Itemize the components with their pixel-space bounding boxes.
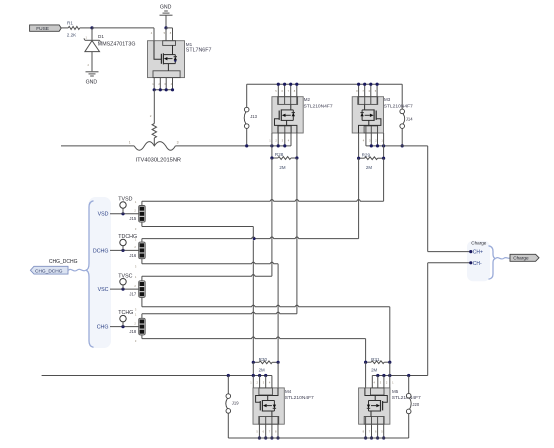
wire bottom drain rail — [228, 437, 408, 439]
svg-text:M1: M1 — [186, 42, 193, 47]
node DCHG top/VSD link junction — [253, 237, 256, 240]
wire right rail bottom (CH- down) — [427, 263, 429, 376]
svg-text:2: 2 — [257, 380, 259, 384]
svg-text:3: 3 — [282, 138, 284, 142]
wire VSC top run — [142, 275, 272, 277]
node M1 pin4 — [171, 88, 174, 91]
svg-text:2: 2 — [134, 321, 136, 325]
node CH+ — [469, 250, 472, 253]
wire DCHG top run — [142, 237, 359, 239]
svg-text:5: 5 — [275, 89, 277, 93]
svg-text:2: 2 — [134, 209, 136, 213]
node M2 pin8 — [295, 83, 298, 86]
node CH- — [469, 261, 472, 264]
node R30 left — [252, 361, 255, 364]
wire J20 to bottom rail — [408, 414, 410, 438]
svg-text:GND: GND — [86, 79, 98, 85]
svg-text:2: 2 — [88, 63, 90, 67]
wire FUSE to R1 — [61, 27, 68, 29]
svg-text:3: 3 — [380, 380, 382, 384]
bus wire squiggle right — [496, 258, 510, 260]
svg-text:CH+: CH+ — [473, 250, 483, 256]
wire J18 pin1 to top run — [141, 314, 143, 319]
wire VSD bottom run — [142, 226, 253, 228]
svg-text:2: 2 — [134, 245, 136, 249]
wire rail A: M2 sense to VSC top — [271, 158, 273, 276]
svg-text:1: 1 — [129, 140, 131, 144]
svg-text:2M: 2M — [366, 165, 372, 170]
svg-text:R31: R31 — [371, 357, 380, 362]
svg-text:5: 5 — [375, 89, 377, 93]
wire J14 to CH+ source rail — [401, 128, 403, 146]
wire rail B: M2 gate to CHG top — [296, 158, 298, 314]
wire drain rail (M2/M3 common) — [247, 83, 403, 85]
svg-text:CHG_DCHG: CHG_DCHG — [49, 259, 78, 265]
svg-text:6: 6 — [263, 430, 265, 434]
node R1/D1 junction — [90, 26, 93, 29]
svg-text:1: 1 — [135, 313, 137, 317]
svg-text:5: 5 — [164, 31, 166, 35]
wire source segment right (M5 to CH-) — [372, 375, 427, 377]
svg-text:2: 2 — [275, 138, 277, 142]
svg-text:2: 2 — [150, 114, 152, 118]
wire rail D: M3 sense to VSD top — [383, 158, 385, 201]
connector J17 3-pin header — [139, 281, 146, 298]
transistor M1 STL7N6F7 — [148, 41, 185, 78]
node M2 pin7 — [289, 83, 292, 86]
wire inductor to M2 section — [175, 145, 291, 147]
wire VSC bottom drop (v3) — [389, 307, 391, 362]
svg-text:4: 4 — [288, 138, 290, 142]
port FUSE — [30, 25, 62, 31]
svg-text:VSC: VSC — [98, 287, 109, 293]
inductor ITV4030L2015NR (tap winding) — [152, 124, 156, 138]
node M2 source pins — [270, 144, 273, 147]
svg-text:3: 3 — [177, 140, 179, 144]
node M3 pin7 — [363, 83, 366, 86]
svg-text:1: 1 — [250, 380, 252, 384]
node J14 bottom — [401, 144, 404, 147]
M4 top pins (source) — [252, 376, 254, 396]
svg-text:1: 1 — [392, 380, 394, 384]
wire J15 pin3 to bottom run — [141, 222, 143, 226]
svg-text:3: 3 — [135, 339, 137, 343]
svg-text:2M: 2M — [371, 367, 377, 372]
wire M1 source bus — [154, 89, 172, 91]
svg-text:ITV4030L2015NR: ITV4030L2015NR — [136, 158, 182, 164]
wire R1 node down into M1 (gate lead) — [153, 28, 155, 41]
bus brace right — [489, 246, 496, 279]
svg-text:1: 1 — [135, 200, 137, 204]
wire CHG signal — [110, 326, 139, 328]
svg-text:1: 1 — [269, 138, 271, 142]
wire J13 stub from rail — [246, 84, 248, 107]
M5 bottom pins (drain) — [365, 417, 367, 439]
connector J15 3-pin header — [139, 206, 146, 223]
node M3 source pins — [370, 144, 373, 147]
jumper J14 — [400, 109, 405, 114]
svg-text:R29: R29 — [362, 152, 371, 157]
node M1 pin3 — [165, 88, 168, 91]
wire CH- — [428, 262, 471, 264]
node R31 right — [388, 361, 391, 364]
svg-text:M3: M3 — [384, 97, 391, 102]
wire J17 pin1 to top run — [141, 276, 143, 281]
svg-text:8: 8 — [356, 89, 358, 93]
wire CHG bottom run — [142, 337, 366, 339]
wire DCHG signal — [110, 249, 139, 251]
svg-text:8: 8 — [170, 31, 172, 35]
svg-text:TVSC: TVSC — [118, 273, 132, 279]
svg-text:TVSD: TVSD — [118, 197, 132, 203]
node J20 top — [407, 374, 410, 377]
wire CHG bottom drop (v4) — [365, 339, 367, 363]
svg-text:7: 7 — [362, 89, 364, 93]
svg-text:Charge: Charge — [513, 256, 529, 261]
svg-text:STL210N4F7: STL210N4F7 — [304, 104, 333, 110]
svg-text:2: 2 — [386, 380, 388, 384]
transistor M2 STL210N4F7 — [272, 97, 303, 133]
transistor M5 STL210N4F7 — [359, 388, 390, 424]
svg-text:2: 2 — [375, 138, 377, 142]
svg-text:7: 7 — [269, 430, 271, 434]
svg-text:8: 8 — [294, 89, 296, 93]
jumper J13 — [244, 107, 249, 112]
resistor R30 — [259, 361, 272, 364]
wire rail C: M3 gate to DCHG top — [358, 158, 360, 238]
testpoint TVSD — [122, 208, 124, 214]
svg-text:J13: J13 — [250, 114, 257, 119]
svg-text:VSD: VSD — [98, 212, 109, 218]
node M4 drain pins — [258, 436, 261, 439]
testpoint TVSC — [122, 285, 124, 289]
M2 top pins (drain) — [277, 84, 279, 104]
bus brace left — [86, 201, 94, 347]
M1 bottom pins — [153, 78, 155, 90]
resistor R31 — [371, 361, 384, 364]
svg-text:4: 4 — [151, 31, 153, 35]
wire M2 gate exit down to R28 — [296, 133, 298, 158]
wire M3 gate exit down to R29 — [358, 133, 360, 158]
port Charge — [510, 254, 539, 261]
wire R31 right to source wire — [389, 362, 391, 375]
jumper J19 — [227, 376, 229, 394]
svg-text:M4: M4 — [285, 389, 292, 394]
svg-text:J16: J16 — [129, 253, 136, 258]
node M1 drain junction — [164, 26, 167, 29]
svg-text:MMSZ4701T3G: MMSZ4701T3G — [98, 41, 136, 47]
svg-text:4: 4 — [269, 380, 271, 384]
wire CH+ — [428, 251, 471, 253]
node R29 left — [357, 157, 360, 160]
connector J18 3-pin header — [139, 318, 146, 335]
node R30 right — [277, 361, 280, 364]
wire GND node to M1 drain pins — [166, 27, 173, 29]
testpoint TCHG — [122, 322, 124, 327]
node M3 pin6 — [369, 83, 372, 86]
node M4 source pins — [252, 374, 255, 377]
svg-text:DCHG: DCHG — [93, 248, 109, 254]
transistor M3 STL210N4F7 — [352, 97, 383, 133]
wire R1 to node — [80, 27, 92, 29]
wire VSD bottom drop (v1) — [252, 227, 254, 239]
node M2 pin5 — [277, 83, 280, 86]
wire VSC signal — [110, 288, 139, 290]
wire VSC bottom run — [142, 305, 390, 307]
svg-text:J20: J20 — [412, 402, 419, 407]
svg-text:TCHG: TCHG — [118, 310, 133, 316]
wire VSD top run — [142, 200, 384, 202]
node M2 pin6 — [283, 83, 286, 86]
M4 bottom pins (drain) — [258, 417, 260, 439]
wire M4 gate feed through — [277, 362, 279, 388]
svg-text:J17: J17 — [129, 292, 136, 297]
svg-text:6: 6 — [375, 430, 377, 434]
wire M2 sense pin1 down — [271, 133, 273, 158]
svg-text:2M: 2M — [259, 367, 265, 372]
resistor R1 — [68, 26, 80, 29]
M3 bottom pins (source) — [370, 126, 372, 146]
svg-text:R1: R1 — [67, 20, 73, 25]
node J19 top — [227, 374, 230, 377]
wire J13 to source rail — [246, 128, 248, 146]
wire J15 pin1 to top run — [141, 201, 143, 205]
node J13 bottom — [245, 144, 248, 147]
M5 top pins (source) — [377, 376, 379, 396]
svg-text:FUSE: FUSE — [36, 26, 49, 32]
resistor R28 — [278, 157, 291, 160]
svg-text:CH-: CH- — [473, 261, 482, 267]
wire M5 gate feed through — [365, 362, 367, 388]
bus region right — [467, 241, 490, 281]
svg-text:3: 3 — [369, 138, 371, 142]
svg-text:7: 7 — [369, 430, 371, 434]
svg-text:J15: J15 — [129, 216, 136, 221]
wire CHG top run — [142, 312, 297, 314]
svg-text:1: 1 — [86, 36, 88, 40]
svg-text:Charge: Charge — [471, 241, 487, 246]
wire DCHG bottom drop (v2) — [277, 264, 279, 363]
svg-text:4: 4 — [363, 138, 365, 142]
wire source feed left (to M4) — [42, 375, 272, 377]
bus region left — [89, 197, 112, 348]
svg-text:D1: D1 — [98, 34, 104, 39]
svg-text:R30: R30 — [259, 357, 268, 362]
M3 top pins (drain) — [364, 84, 366, 104]
node M3 pin8 — [357, 83, 360, 86]
inductor body arcs — [134, 142, 175, 151]
wire J19 to bottom rail — [227, 413, 229, 438]
svg-text:2: 2 — [134, 284, 136, 288]
svg-text:5: 5 — [381, 430, 383, 434]
node M5 drain pins — [364, 436, 367, 439]
M2 bottom pins (source) — [277, 126, 279, 146]
bus wire squiggle left — [68, 269, 85, 271]
svg-text:CHG_DCHG: CHG_DCHG — [35, 268, 63, 274]
svg-text:6: 6 — [282, 89, 284, 93]
connector J16 3-pin header — [139, 242, 146, 259]
svg-text:8: 8 — [363, 430, 365, 434]
svg-text:3: 3 — [135, 264, 137, 268]
wire J18 pin3 to bottom run — [141, 335, 143, 339]
wire J16 pin1 to top run — [141, 239, 143, 243]
svg-text:J19: J19 — [232, 400, 239, 405]
node M1 pin1 — [153, 88, 156, 91]
svg-text:R28: R28 — [275, 152, 284, 157]
svg-text:J14: J14 — [406, 116, 413, 121]
testpoint TDCHG — [122, 246, 124, 251]
node R31 left — [364, 361, 367, 364]
jumper J20 — [408, 376, 410, 394]
svg-text:CHG: CHG — [97, 325, 109, 331]
wire M1 source down to inductor tap — [153, 90, 155, 124]
diode D1 MMSZ4701T3G (zener) — [91, 28, 93, 40]
svg-text:1: 1 — [135, 275, 137, 279]
svg-text:8: 8 — [275, 430, 277, 434]
wire M3 sense pin down — [383, 133, 385, 158]
svg-text:4: 4 — [374, 380, 376, 384]
svg-text:3: 3 — [135, 307, 137, 311]
svg-text:2M: 2M — [279, 165, 285, 170]
wire left feed — [61, 145, 134, 147]
svg-text:3: 3 — [135, 227, 137, 231]
node R29 right — [382, 157, 385, 160]
svg-text:2.2K: 2.2K — [67, 32, 77, 37]
wire DCHG bottom run — [142, 262, 278, 264]
svg-text:5: 5 — [256, 430, 258, 434]
wire J16 pin3 to bottom run — [141, 259, 143, 264]
svg-text:J18: J18 — [129, 329, 136, 334]
wire right rail top (to CH+) — [427, 146, 429, 252]
svg-text:STL210N4F7: STL210N4F7 — [285, 395, 314, 401]
wire J17 pin3 to bottom run — [141, 297, 143, 306]
svg-text:GND: GND — [160, 4, 172, 10]
svg-text:7: 7 — [288, 89, 290, 93]
svg-text:3: 3 — [263, 380, 265, 384]
node R28 right — [295, 156, 298, 159]
node M5 source pins — [376, 374, 379, 377]
wire VSD signal — [110, 213, 139, 215]
node R28 left — [270, 156, 273, 159]
resistor R29 — [365, 157, 378, 160]
node M1 pin2 — [159, 88, 162, 91]
wire node to M1 gate — [92, 27, 154, 29]
transistor M4 STL210N4F7 — [253, 388, 284, 424]
node M3 pin5 — [376, 83, 379, 86]
svg-text:STL210N4F7: STL210N4F7 — [384, 104, 413, 110]
wire R30 left to source wire — [252, 362, 254, 375]
svg-text:M2: M2 — [304, 97, 311, 102]
wire M3 source segment — [366, 145, 428, 147]
svg-text:M5: M5 — [392, 389, 399, 394]
ground GND (under D1) — [86, 71, 99, 73]
wire J14 stub from rail — [401, 84, 403, 109]
svg-text:STL7N6F7: STL7N6F7 — [186, 48, 212, 54]
